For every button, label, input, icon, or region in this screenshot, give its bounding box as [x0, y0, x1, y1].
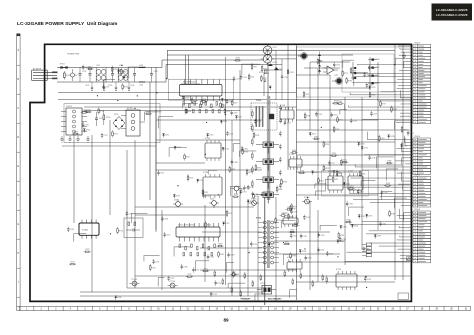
diode D721	[309, 133, 316, 137]
svg-text:C732: C732	[353, 120, 357, 122]
svg-text:T701: T701	[256, 100, 262, 102]
resistor R792	[323, 164, 329, 171]
svg-text:C760: C760	[366, 249, 370, 251]
relay RY701	[121, 108, 145, 136]
diode D731	[366, 214, 373, 218]
wire horiz y262	[296, 261, 410, 263]
diode D717	[235, 116, 242, 120]
svg-text:D738: D738	[336, 171, 340, 173]
wire vert x162 low	[161, 210, 163, 290]
svg-text:C744: C744	[213, 294, 217, 296]
svg-text:C753: C753	[70, 229, 74, 231]
wire left vertical drop	[155, 68, 157, 231]
wire vert x403	[402, 45, 404, 280]
svg-text:R788: R788	[393, 109, 397, 111]
svg-text:D716: D716	[199, 180, 203, 182]
resistor R783	[369, 91, 375, 98]
capacitor C728	[368, 155, 375, 160]
wire horiz y140	[156, 139, 240, 141]
svg-text:R727: R727	[233, 103, 237, 105]
connector CN704	[355, 132, 431, 175]
svg-text:R744: R744	[403, 129, 407, 131]
svg-text:D729: D729	[371, 87, 375, 89]
sub-board outline	[64, 104, 160, 143]
svg-text:CN706: CN706	[414, 209, 420, 211]
connector CN702	[61, 106, 87, 135]
junction node (205,154)	[205, 154, 206, 155]
capacitor C760	[363, 246, 370, 251]
capacitor C754	[333, 62, 340, 67]
svg-text:R796: R796	[255, 196, 259, 198]
svg-text:C740: C740	[320, 235, 324, 237]
svg-text:R800: R800	[290, 216, 294, 218]
capacitor C724	[202, 193, 209, 198]
wire filter to bridge top	[162, 60, 264, 68]
svg-text:R738: R738	[231, 169, 235, 171]
wire segment near (376,156)	[377, 157, 394, 168]
diode D711	[162, 134, 169, 138]
svg-text:R741: R741	[204, 192, 208, 194]
svg-text:D726: D726	[302, 251, 306, 253]
svg-text:R789: R789	[387, 161, 391, 163]
svg-text:C702: C702	[85, 85, 89, 87]
resistor R791	[332, 176, 338, 183]
svg-text:R777: R777	[71, 262, 75, 264]
capacitor C742	[303, 215, 310, 220]
wire segment near (158,277)	[158, 278, 164, 287]
svg-text:R718: R718	[236, 58, 240, 60]
wire AC live rail	[57, 67, 162, 69]
svg-text:C745: C745	[303, 236, 307, 238]
wire vert x318	[317, 68, 319, 200]
legend box bottom right	[398, 293, 409, 300]
bridge rectifier D705	[113, 114, 125, 130]
diode D734	[351, 224, 358, 228]
svg-text:R790: R790	[325, 144, 329, 146]
resistor R787 horizontal	[345, 220, 352, 223]
svg-text:PC703: PC703	[132, 279, 138, 281]
capacitor C757	[366, 83, 373, 88]
wire segment near (348,207)	[349, 207, 364, 216]
svg-text:C701: C701	[82, 71, 86, 73]
junction node (121,65)	[121, 65, 122, 66]
wire horiz y232 right	[274, 231, 330, 233]
enclosure box PFC	[168, 79, 233, 100]
resistor network below IC701	[183, 102, 223, 113]
varistor RV701	[71, 69, 79, 81]
svg-text:C751: C751	[155, 261, 159, 263]
resistor R773 horizontal	[84, 249, 91, 252]
diode D707	[123, 76, 130, 80]
photocoupler PC701	[249, 199, 259, 206]
svg-text:C725: C725	[229, 133, 233, 135]
wire horiz y232	[202, 231, 262, 233]
choke L701	[96, 65, 106, 82]
label SECONDARY	[268, 298, 282, 301]
svg-text:C735: C735	[293, 212, 297, 214]
svg-text:R793: R793	[380, 138, 384, 140]
svg-text:R802: R802	[285, 241, 289, 243]
capacitor C709	[264, 80, 266, 81]
capacitor C723	[251, 191, 258, 196]
svg-text:R791: R791	[334, 179, 338, 181]
svg-text:D720: D720	[376, 59, 380, 61]
svg-text:R773: R773	[85, 249, 89, 251]
wire vert x395	[394, 45, 396, 280]
wire segment near (143,255)	[144, 255, 160, 261]
svg-text:T702: T702	[256, 218, 262, 220]
svg-text:R760: R760	[292, 150, 296, 152]
svg-text:R715: R715	[122, 71, 126, 73]
resistor R701	[64, 71, 71, 80]
diode D735	[337, 240, 344, 244]
capacitor C763	[381, 190, 388, 195]
svg-text:PC702: PC702	[304, 197, 310, 199]
wire horiz y120 right	[296, 119, 378, 121]
resistor R775 horizontal	[186, 274, 193, 277]
junction node (366,287)	[366, 287, 367, 288]
diode D724	[343, 182, 350, 186]
junction node (283,242)	[283, 242, 284, 243]
resistor R800	[288, 213, 294, 220]
wire bus2	[167, 54, 353, 56]
wire segment near (144,111)	[145, 112, 162, 121]
component box right of DIP	[124, 218, 143, 238]
svg-text:R734: R734	[86, 109, 90, 111]
svg-text:R792: R792	[325, 168, 329, 170]
resistor R747	[380, 100, 386, 107]
resistor R720	[261, 65, 267, 72]
junction node (110,233)	[110, 233, 111, 234]
diode D713	[240, 191, 247, 195]
capacitor C717	[233, 76, 240, 81]
resistor R732	[98, 107, 104, 114]
svg-text:89: 89	[223, 318, 229, 323]
svg-text:D717: D717	[238, 117, 242, 119]
capacitor C740	[318, 232, 325, 237]
svg-text:D728: D728	[117, 297, 121, 299]
svg-text:CN703: CN703	[414, 42, 420, 44]
capacitor C758	[339, 237, 346, 242]
resistor R736	[253, 132, 259, 139]
wire horiz y142	[296, 141, 395, 143]
bridge rectifier D703	[261, 52, 277, 66]
resistor R751	[336, 170, 342, 177]
svg-text:C767: C767	[250, 187, 254, 189]
svg-text:C715: C715	[105, 87, 109, 89]
capacitor C718	[230, 110, 237, 115]
svg-text:R764: R764	[207, 225, 211, 227]
secondary rectifier caps C720-C726	[279, 105, 282, 189]
svg-text:D: D	[17, 136, 19, 139]
resistor R797	[291, 203, 297, 210]
svg-text:R754: R754	[300, 170, 304, 172]
junction node (373,59)	[373, 58, 374, 59]
comparator IC713	[323, 66, 338, 74]
wire bridge out bottom	[272, 58, 297, 60]
diode D718	[206, 134, 213, 138]
svg-text:R746: R746	[278, 189, 282, 191]
capacitor C745	[300, 233, 307, 238]
wire segment near (230,186)	[230, 186, 240, 195]
svg-text:IC7601: IC7601	[82, 230, 88, 232]
connector CN705	[343, 172, 430, 207]
resistor R748 horizontal	[332, 101, 339, 104]
IC IC706	[328, 171, 343, 193]
wire horiz bottom3	[200, 269, 297, 271]
wire horiz y165	[296, 164, 403, 166]
junction node (117,100)	[117, 100, 118, 101]
resistor R709	[287, 70, 293, 74]
capacitor C716	[240, 75, 247, 80]
wire vert x225	[225, 57, 227, 285]
svg-text:D739: D739	[250, 201, 254, 203]
svg-text:R723: R723	[202, 99, 206, 101]
svg-text:R798: R798	[292, 256, 296, 258]
svg-text:R732: R732	[100, 111, 104, 113]
capacitor C756	[368, 65, 375, 70]
svg-text:R713: R713	[124, 87, 128, 89]
svg-text:R762: R762	[342, 162, 346, 164]
wire vert x74	[73, 135, 75, 223]
wire segment near (128,67)	[128, 67, 146, 76]
wire switching node	[264, 62, 268, 96]
capacitor C744	[210, 291, 217, 296]
label power PWB	[67, 54, 80, 56]
svg-text:C726: C726	[318, 114, 322, 116]
resistor R802 horizontal	[283, 241, 290, 244]
svg-text:IC704: IC704	[203, 172, 208, 174]
svg-text:R739: R739	[234, 194, 238, 196]
svg-text:D736: D736	[390, 136, 394, 138]
resistor R803 horizontal	[292, 223, 299, 226]
wire horiz mid right2	[297, 154, 411, 156]
diode D733	[374, 235, 381, 239]
svg-text:R759: R759	[320, 180, 324, 182]
svg-text:C755: C755	[366, 74, 370, 76]
capacitor C738	[227, 252, 234, 257]
diode D708	[221, 98, 228, 102]
capacitor C769	[254, 119, 261, 124]
resistor R724	[185, 107, 191, 114]
junction node (321,127)	[321, 127, 322, 128]
resistor R728	[220, 101, 226, 108]
wire horiz y75	[296, 74, 330, 76]
bridge rectifier D701	[261, 43, 277, 57]
svg-text:R710: R710	[259, 72, 263, 74]
svg-text:C728: C728	[371, 157, 375, 159]
capacitor C726	[315, 112, 322, 117]
svg-text:R742: R742	[189, 178, 193, 180]
resistor R795	[255, 164, 261, 171]
capacitor C702	[85, 68, 92, 88]
wire horiz y92	[58, 92, 296, 94]
wire vert x232	[231, 120, 233, 296]
wire horiz y163	[156, 162, 205, 164]
wire vert x248	[247, 200, 249, 296]
svg-text:C756: C756	[371, 67, 375, 69]
wire horiz y248	[200, 247, 262, 249]
svg-text:C766: C766	[244, 148, 248, 150]
svg-text:C736: C736	[320, 250, 324, 252]
junction node (394,64)	[394, 64, 395, 65]
resistor R779	[342, 70, 348, 77]
diode D712	[174, 146, 181, 150]
Y-capacitors C716-C719	[91, 82, 130, 91]
diode D732	[358, 215, 365, 219]
capacitor C715	[95, 112, 103, 126]
capacitor C746	[181, 264, 188, 269]
capacitor C765	[243, 185, 250, 190]
svg-text:R766: R766	[220, 254, 224, 256]
capacitor C710 terminal	[298, 50, 307, 59]
svg-text:C743: C743	[210, 257, 214, 259]
IC IC703	[205, 138, 221, 161]
diode D726	[299, 250, 306, 254]
svg-text:D719: D719	[176, 196, 180, 198]
resistor R723 horizontal	[200, 99, 207, 102]
capacitor C705	[150, 68, 158, 83]
svg-text:C761: C761	[382, 224, 386, 226]
svg-text:D722: D722	[403, 145, 407, 147]
svg-text:R743: R743	[386, 183, 390, 185]
svg-text:C718: C718	[233, 113, 237, 115]
svg-text:R778: R778	[305, 94, 309, 96]
junction node (178,185)	[177, 185, 178, 186]
bottom border ruler	[17, 306, 471, 310]
wire horiz A	[58, 99, 411, 101]
wire horiz y172	[296, 171, 362, 173]
svg-text:R771: R771	[277, 220, 281, 222]
transistor Q703	[231, 186, 244, 194]
photocoupler PC702	[302, 197, 312, 204]
wire segment near (182,103)	[183, 103, 198, 108]
wire horiz y296	[80, 295, 296, 297]
resistor R718 horizontal	[234, 58, 241, 61]
resistor R758	[281, 178, 287, 185]
IC IC711	[283, 213, 298, 227]
wire segment near (394,198)	[394, 198, 406, 208]
resistor R796	[253, 192, 259, 199]
resistor R749	[304, 112, 310, 119]
svg-text:C764: C764	[333, 115, 337, 117]
wire segment near (342,60)	[343, 60, 354, 68]
svg-text:C759: C759	[349, 204, 353, 206]
svg-text:D713: D713	[242, 192, 246, 194]
IC IC704	[203, 172, 222, 198]
capacitor C743	[207, 254, 214, 259]
connector CN707 small	[362, 243, 371, 257]
wire horiz y170	[156, 169, 262, 171]
resistor R781	[350, 67, 356, 74]
wire segment near (406,256)	[406, 257, 412, 261]
junction node (366,276)	[366, 276, 367, 277]
svg-text:R782: R782	[319, 61, 323, 63]
connector CN706	[345, 209, 430, 263]
wire segment near (289,289)	[289, 290, 296, 298]
regulator Q715 boxed package	[257, 283, 276, 294]
connector CN703	[345, 42, 431, 124]
capacitor C739	[250, 241, 257, 246]
capacitor C720	[82, 122, 89, 127]
svg-text:R795: R795	[257, 167, 261, 169]
capacitor C715	[102, 84, 109, 89]
diode cluster D702	[264, 64, 282, 76]
capacitor C759	[346, 201, 353, 206]
svg-text:D727: D727	[271, 244, 275, 246]
wire segment near (325,179)	[326, 179, 333, 190]
svg-text:C752: C752	[166, 234, 170, 236]
svg-text:IC705: IC705	[289, 154, 294, 156]
svg-text:C745: C745	[367, 279, 371, 281]
svg-text:LC-32GA8E/LC-32BV8: LC-32GA8E/LC-32BV8	[436, 8, 468, 12]
resistor R764	[205, 221, 211, 228]
capacitor C735	[290, 209, 297, 214]
capacitor C701	[79, 68, 87, 83]
svg-text:POWER PWB: POWER PWB	[67, 54, 80, 56]
capacitor C766	[241, 146, 248, 151]
svg-text:R765: R765	[281, 213, 285, 215]
capacitor C747	[167, 276, 174, 281]
resistor R766	[218, 251, 224, 258]
capacitor C767	[247, 185, 254, 190]
transformer T702	[256, 218, 279, 269]
resistor R731 horizontal	[81, 110, 88, 113]
wire segment near (103,79)	[104, 79, 116, 87]
svg-text:R787: R787	[346, 220, 350, 222]
resistor R746	[276, 185, 282, 192]
svg-text:C747: C747	[170, 278, 174, 280]
wire horiz y215	[135, 214, 225, 216]
svg-text:L701: L701	[96, 65, 100, 67]
svg-text:IC710 STR-W6753: IC710 STR-W6753	[178, 225, 196, 227]
wire vert x276b	[275, 50, 277, 100]
svg-text:C748: C748	[164, 218, 168, 220]
svg-text:R783: R783	[371, 95, 375, 97]
IC IC710 PWM controller	[176, 223, 220, 256]
capacitor C741	[214, 280, 221, 285]
resistor R756 horizontal	[330, 153, 337, 156]
wire segment near (233,143)	[233, 144, 240, 152]
svg-text:C708: C708	[284, 77, 288, 79]
resistor R759	[318, 177, 324, 184]
title text	[17, 21, 118, 27]
resistor R715	[120, 68, 126, 75]
wire primary-secondary divider	[264, 197, 266, 305]
diode column D720-D723	[368, 59, 380, 85]
svg-text:L704: L704	[139, 85, 143, 87]
ground sub GND1	[402, 52, 406, 59]
capacitor C711 terminal	[332, 75, 342, 84]
resistor R725	[201, 99, 207, 106]
wire horiz y88	[296, 87, 370, 89]
capacitor C753	[67, 227, 74, 232]
svg-text:C750: C750	[195, 270, 199, 272]
choke L703	[139, 65, 145, 87]
capacitor C736	[317, 247, 324, 252]
resistor R753 horizontal	[348, 186, 355, 189]
resistor R761 horizontal	[313, 136, 320, 139]
junction node (304,248)	[304, 248, 305, 249]
resistor R777 horizontal	[69, 262, 76, 265]
IC IC712	[287, 257, 302, 272]
diode D738	[333, 170, 340, 174]
resistor R778	[303, 91, 309, 98]
junction node (290,261)	[289, 261, 290, 262]
svg-text:C704: C704	[130, 85, 134, 87]
svg-text:D715: D715	[223, 121, 227, 123]
diode D716	[197, 179, 204, 183]
